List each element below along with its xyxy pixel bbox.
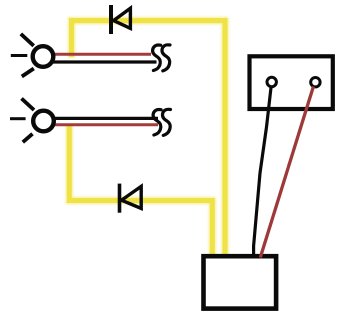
wire red from lamp L1: [53, 53, 151, 56]
lamp L2: [10, 99, 54, 143]
diode D1: [111, 5, 130, 34]
wire yellow net Y2 (lamp2 splice down, across through D2, down to module): [69, 124, 212, 256]
module box M1 (bottom): [204, 256, 277, 308]
wire yellow net Y1 (lamp1 splice up, across top through D1, down to module): [72, 21, 226, 256]
wire yellow halo (soft glow under yellow nets): [69, 21, 225, 256]
terminal pin 2: [311, 78, 320, 87]
wire black pin1 to module M1: [254, 88, 271, 255]
splice marks S1 (end of lamp L1 wires): [153, 45, 170, 71]
diode D2: [120, 184, 142, 213]
wire black from lamp L1: [53, 60, 157, 63]
connector box J1 (top right, two terminals): [250, 56, 333, 109]
terminal pin 1: [267, 77, 276, 86]
splice marks S2 (end of lamp L2 wires): [153, 109, 170, 135]
wire red pin2 to module M1: [260, 87, 313, 258]
wire red from lamp L2: [54, 123, 158, 126]
wire black from lamp L2: [54, 117, 158, 120]
lamp L1: [11, 34, 54, 77]
